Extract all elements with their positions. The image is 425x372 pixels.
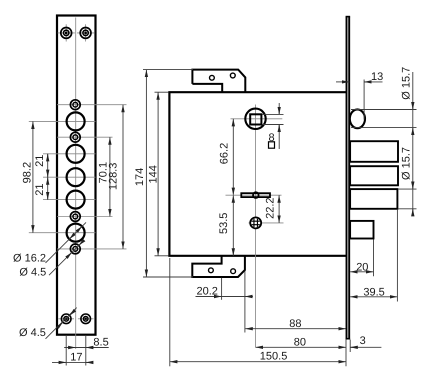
extension line roller right: [363, 80, 365, 120]
hole I: [70, 244, 80, 254]
svg-text:150.5: 150.5: [260, 351, 288, 363]
extension lines deadbolt top/bottom: [399, 188, 417, 190]
extension line latch right: [373, 240, 375, 277]
faceplate front view outline: [57, 16, 96, 335]
dimension 150.5 line: [170, 361, 346, 363]
dimension 17 line: [52, 361, 93, 363]
svg-text:8: 8: [268, 132, 274, 144]
dimension 20.2 line: [196, 296, 253, 298]
dimension 20 line: [350, 271, 373, 273]
deadbolt 1: [350, 141, 398, 162]
dimension 39.5 line: [350, 296, 397, 298]
svg-text:Ø 16.2: Ø 16.2: [13, 252, 46, 264]
svg-text:Ø 15.7: Ø 15.7: [401, 67, 413, 100]
top screw hole at x=85.6: [77, 24, 94, 41]
svg-text:Ø 4.5: Ø 4.5: [19, 327, 46, 339]
lever centerline: [226, 194, 282, 196]
dimension 13 line: [336, 81, 349, 83]
lever pivot: [253, 192, 259, 198]
svg-text:174: 174: [134, 168, 146, 186]
hole H: [67, 224, 85, 242]
extension line right screw: [85, 336, 87, 366]
hole C centerline: [57, 136, 113, 138]
hole E: [67, 168, 85, 186]
deadbolt 2: [350, 166, 398, 185]
svg-text:53.5: 53.5: [218, 213, 230, 234]
extension line body left edge: [169, 258, 171, 366]
cylinder hole: [249, 216, 262, 230]
hole A: [70, 100, 80, 110]
dimension 53.5 line: [232, 195, 234, 256]
hole H centerline: [29, 232, 96, 234]
hole B centerline: [29, 120, 96, 122]
extension lines roller top/bottom: [351, 109, 417, 111]
lever bar: [241, 193, 270, 197]
lock body outline: [168, 91, 346, 257]
hole D centerline: [43, 153, 96, 155]
long vertical centerline through spindle and cylinder: [255, 105, 257, 348]
svg-text:21: 21: [34, 155, 46, 167]
leader line dia 4.5 bottom: [46, 308, 77, 339]
dimension 22.2 line: [278, 195, 280, 223]
hole D: [67, 145, 85, 163]
svg-text:39.5: 39.5: [363, 286, 384, 298]
leader line dia 16.2: [46, 222, 87, 263]
extension line bottom tab: [143, 276, 193, 278]
extension line body bottom: [155, 255, 169, 257]
dimension 8.5 line: [64, 347, 109, 349]
extension line body top: [155, 91, 169, 93]
top screw hole at x=66.2: [58, 24, 75, 41]
svg-text:21: 21: [34, 183, 46, 195]
bottom tab hole 2: [231, 269, 236, 274]
extension line faceplate bottom: [345, 340, 347, 367]
svg-text:98.2: 98.2: [21, 162, 33, 183]
extension line tab notch: [221, 278, 223, 300]
extension line tab right edge: [244, 271, 246, 333]
dimension 80 line: [256, 346, 347, 348]
latch roller: [350, 109, 365, 128]
leader line dia 4.5: [49, 242, 82, 275]
svg-text:Ø 4.5: Ø 4.5: [19, 267, 46, 279]
hole F: [67, 191, 85, 209]
dimension 98.2 line: [32, 121, 34, 232]
svg-text:Ø 15.7: Ø 15.7: [401, 147, 413, 180]
faceplate edge view: [346, 17, 351, 339]
bottom mounting tab: [192, 256, 245, 277]
extension line deadbolt right: [396, 210, 398, 302]
spindle hub circle: [245, 109, 265, 129]
spindle horizontal centerline: [231, 118, 283, 120]
dimension 128.3 line: [122, 105, 124, 249]
dimension 21 arrows: [47, 154, 49, 160]
extension line faceplate outer face: [349, 340, 351, 353]
label square 8: [269, 142, 275, 148]
svg-text:20: 20: [356, 261, 368, 273]
deadbolt 3: [350, 189, 397, 209]
hole I centerline: [57, 248, 127, 250]
dimension 3 tail: [350, 346, 381, 348]
hole G: [70, 212, 80, 222]
svg-text:8.5: 8.5: [93, 337, 108, 349]
svg-text:22.2: 22.2: [264, 197, 276, 218]
faceplate vertical centerline: [75, 18, 77, 350]
hole G centerline: [57, 216, 113, 218]
auxiliary latch: [350, 221, 373, 239]
svg-text:128.3: 128.3: [107, 163, 119, 191]
dimension 144 line: [157, 92, 159, 256]
square 8 extension lines: [263, 113, 284, 115]
svg-text:66.2: 66.2: [219, 143, 231, 164]
svg-text:3: 3: [360, 335, 366, 347]
svg-text:80: 80: [294, 336, 306, 348]
dimension dia 15.7 top line: [412, 72, 414, 216]
hole F centerline: [43, 199, 96, 201]
hole A centerline: [57, 104, 127, 106]
bottom screw hole at x=66.2: [58, 314, 74, 324]
dimension 88 line: [245, 328, 346, 330]
top tab hole 1: [210, 75, 215, 80]
svg-text:13: 13: [371, 71, 383, 83]
extension line top tab: [143, 69, 193, 71]
dimension 8 line: [278, 103, 280, 114]
dimension 21/21 line: [47, 154, 49, 200]
top mounting tab: [192, 70, 245, 93]
dimension 70.1 line: [109, 137, 111, 216]
spindle square 8mm: [250, 114, 261, 124]
svg-text:20.2: 20.2: [197, 285, 218, 297]
bottom tab hole 1: [209, 268, 214, 273]
extension line left screw: [65, 336, 67, 366]
hole E centerline: [43, 176, 96, 178]
hole C: [70, 132, 80, 142]
bottom screw hole at x=85.7: [78, 314, 94, 324]
svg-text:17: 17: [70, 351, 82, 363]
hole B: [67, 112, 85, 130]
dimension 66.2 line: [232, 119, 234, 195]
dimension 174 line: [145, 70, 147, 277]
svg-text:88: 88: [289, 318, 301, 330]
cylinder hole horizontal centerline: [249, 222, 284, 224]
svg-text:144: 144: [148, 165, 160, 183]
top tab hole 2: [230, 73, 235, 78]
